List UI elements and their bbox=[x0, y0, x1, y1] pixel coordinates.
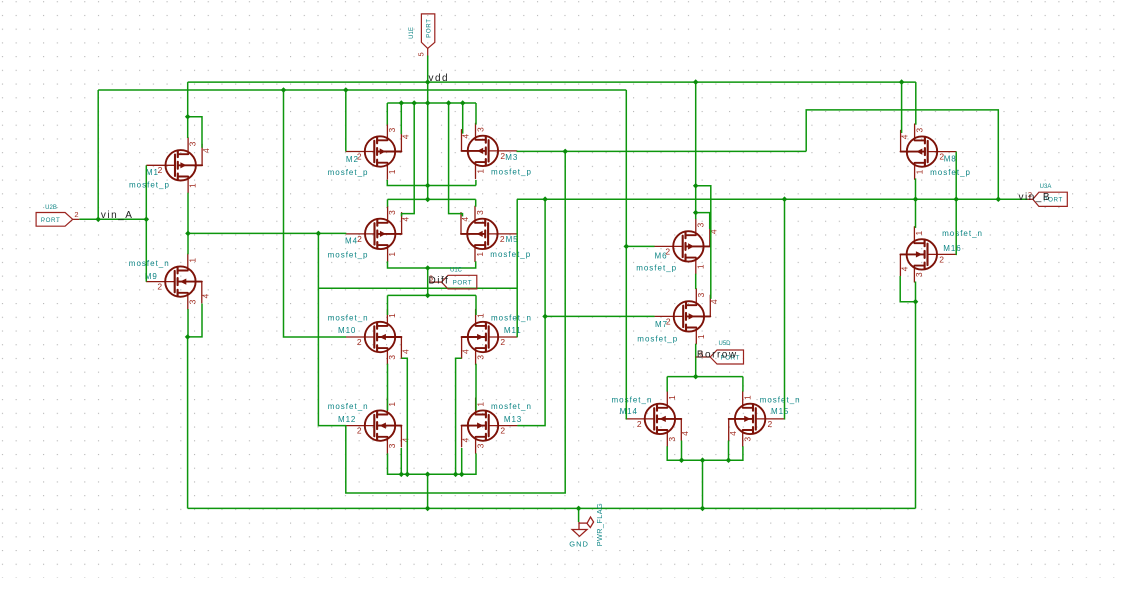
junction bbox=[576, 506, 582, 512]
junction bbox=[913, 196, 919, 202]
junction bbox=[453, 472, 459, 478]
svg-text:M4: M4 bbox=[345, 237, 358, 246]
wire left drop to gnd rail bbox=[187, 337, 189, 509]
svg-text:M12: M12 bbox=[338, 415, 356, 424]
junction bbox=[693, 374, 699, 380]
port vdd PORT (top) bbox=[427, 48, 429, 55]
svg-text:1: 1 bbox=[187, 258, 197, 263]
svg-text:3: 3 bbox=[387, 210, 397, 215]
wire to M5/M11 gates column bbox=[516, 199, 518, 337]
svg-text:1: 1 bbox=[743, 395, 753, 400]
wire to M3 pin4 bbox=[462, 103, 464, 134]
transistor M16 (mosfet_n) bbox=[900, 227, 955, 282]
svg-text:M15: M15 bbox=[771, 407, 789, 416]
wire M7 pin1 to Borrow bbox=[695, 344, 697, 377]
junction bbox=[693, 210, 699, 216]
svg-text:3: 3 bbox=[475, 355, 485, 360]
wire to M13 gate column bbox=[517, 199, 545, 425]
svg-text:4: 4 bbox=[461, 134, 471, 139]
wire M5 pin3 leg bbox=[475, 199, 477, 206]
svg-text:3: 3 bbox=[475, 443, 485, 448]
svg-text:PWR_FLAG: PWR_FLAG bbox=[595, 503, 604, 546]
wire vdd rail bbox=[188, 81, 916, 83]
svg-text:2: 2 bbox=[939, 254, 944, 264]
wire M9 pin3 leg bbox=[187, 309, 189, 337]
svg-text:3: 3 bbox=[914, 272, 924, 277]
wire M8 gate drop bbox=[955, 152, 957, 200]
wire to gnd rail bbox=[702, 460, 704, 508]
wire vdd distribution row bbox=[387, 102, 476, 104]
wire M11 pin4 down bbox=[456, 358, 462, 474]
svg-text:3: 3 bbox=[187, 299, 197, 304]
wire M3 gate jog to vin_B bbox=[806, 110, 998, 199]
wire mid row A bbox=[318, 287, 517, 289]
svg-text:2: 2 bbox=[357, 337, 362, 347]
junction bbox=[425, 506, 431, 512]
svg-text:4: 4 bbox=[461, 349, 471, 354]
wire to M3 pin3 bbox=[475, 103, 477, 125]
wire M13 pin4 leg bbox=[461, 448, 463, 474]
transistor M2 (mosfet_p) bbox=[346, 124, 401, 179]
svg-text:mosfet_n: mosfet_n bbox=[491, 402, 532, 411]
svg-text:3: 3 bbox=[696, 292, 706, 297]
junction bbox=[693, 183, 699, 189]
junction bbox=[562, 149, 568, 155]
port vin_B PORT bbox=[1028, 198, 1033, 200]
wire to M4 pin4 bbox=[402, 103, 415, 216]
junction bbox=[624, 244, 630, 250]
svg-text:mosfet_p: mosfet_p bbox=[637, 335, 678, 344]
wire to M12 gate bbox=[318, 233, 346, 425]
junction bbox=[425, 265, 431, 271]
junction bbox=[399, 100, 405, 106]
svg-text:mosfet_p: mosfet_p bbox=[930, 168, 971, 177]
transistor M4 (mosfet_p) bbox=[346, 206, 401, 261]
wire M15 pin4 leg bbox=[728, 441, 730, 461]
wire to M15 pin1 bbox=[742, 377, 744, 392]
svg-text:3: 3 bbox=[188, 141, 198, 146]
wire vin_B row bbox=[517, 198, 1028, 200]
transistor M3 (mosfet_p) bbox=[462, 123, 517, 178]
svg-text:Diff: Diff bbox=[429, 275, 450, 286]
wire to M6 pin4 bbox=[696, 213, 710, 229]
wire to M11 pin1 bbox=[475, 295, 477, 315]
wire vin_A port to gates bbox=[79, 218, 146, 220]
junction bbox=[446, 100, 452, 106]
svg-text:2: 2 bbox=[157, 282, 162, 292]
transistor M1 (mosfet_p) bbox=[147, 138, 202, 193]
svg-text:GND: GND bbox=[569, 539, 589, 548]
wire vdd to M1 pin3 bbox=[187, 82, 189, 138]
port vin_A PORT bbox=[73, 218, 80, 220]
svg-text:4: 4 bbox=[400, 349, 410, 354]
junction bbox=[185, 334, 191, 340]
svg-text:2: 2 bbox=[768, 419, 773, 429]
svg-text:vdd: vdd bbox=[429, 73, 450, 84]
svg-text:vin_A: vin_A bbox=[101, 210, 134, 221]
wire M12 pin4 leg bbox=[400, 448, 402, 474]
junction bbox=[679, 457, 685, 463]
wire to M5 pin4 bbox=[449, 103, 463, 216]
wire M10 pin3 to M12 pin1 bbox=[387, 364, 389, 411]
svg-text:M16: M16 bbox=[943, 244, 961, 253]
transistor M14 (mosfet_n) bbox=[626, 391, 681, 446]
svg-text:mosfet_n: mosfet_n bbox=[942, 229, 983, 238]
svg-text:4: 4 bbox=[728, 431, 738, 436]
svg-text:4: 4 bbox=[709, 299, 719, 304]
wire M4 pin3 leg bbox=[387, 199, 389, 206]
svg-text:4: 4 bbox=[400, 438, 410, 443]
svg-text:3: 3 bbox=[914, 128, 924, 133]
wire M10 pin4 down bbox=[402, 358, 408, 474]
junction bbox=[399, 472, 405, 478]
wire gnd stub bbox=[578, 508, 580, 522]
ground GND bbox=[572, 522, 587, 536]
wire Borrow row bbox=[667, 376, 743, 378]
junction bbox=[460, 100, 466, 106]
wire mid drop to gnd rail bbox=[427, 474, 429, 508]
wire vdd to M8 pin4 bbox=[901, 82, 903, 133]
junction bbox=[144, 217, 150, 223]
wire M4 pin3 / M5 pin3 tie bbox=[388, 198, 476, 200]
svg-text:3: 3 bbox=[387, 443, 397, 448]
wire vin_A rail bbox=[98, 89, 626, 91]
svg-text:2: 2 bbox=[74, 210, 78, 219]
svg-text:1: 1 bbox=[188, 183, 198, 188]
junction bbox=[693, 79, 699, 85]
svg-text:4: 4 bbox=[680, 431, 690, 436]
junction bbox=[95, 217, 101, 223]
junction bbox=[425, 197, 431, 203]
transistor M12 (mosfet_n) bbox=[346, 398, 401, 453]
wire node to M4 gate bbox=[188, 232, 346, 234]
svg-text:2: 2 bbox=[500, 337, 505, 347]
svg-text:vin_B: vin_B bbox=[1019, 192, 1052, 203]
junction bbox=[782, 196, 788, 202]
svg-text:5: 5 bbox=[417, 52, 426, 56]
svg-text:4: 4 bbox=[201, 294, 211, 299]
svg-text:1: 1 bbox=[475, 313, 485, 318]
svg-text:U1E: U1E bbox=[409, 27, 415, 39]
wire M2 pin1 / M3 pin1 tie bbox=[387, 180, 476, 186]
wire vin_A to M10 gate bbox=[284, 90, 347, 337]
svg-text:1: 1 bbox=[914, 169, 924, 174]
svg-text:mosfet_n: mosfet_n bbox=[328, 402, 369, 411]
svg-text:mosfet_p: mosfet_p bbox=[328, 168, 369, 177]
svg-text:4: 4 bbox=[461, 438, 471, 443]
svg-text:Borrow: Borrow bbox=[697, 350, 738, 361]
svg-text:1: 1 bbox=[475, 252, 485, 257]
wire vin_B to M16 gate bbox=[955, 199, 957, 254]
junction bbox=[411, 100, 417, 106]
wire vin_A to M2 gate bbox=[345, 90, 347, 151]
svg-text:4: 4 bbox=[401, 217, 411, 222]
svg-text:M8: M8 bbox=[944, 155, 957, 164]
transistor M6 (mosfet_p) bbox=[655, 219, 710, 274]
junction bbox=[185, 114, 191, 120]
wire to M1 pin4 bbox=[188, 117, 202, 148]
svg-text:3: 3 bbox=[387, 355, 397, 360]
wire M11 pin3 to M13 pin1 bbox=[475, 364, 477, 411]
wire M16 pin3 to gnd rail bbox=[915, 282, 917, 509]
svg-text:4: 4 bbox=[400, 134, 410, 139]
svg-text:mosfet_n: mosfet_n bbox=[491, 313, 532, 322]
svg-text:1: 1 bbox=[387, 313, 397, 318]
wire to M2 pin4 bbox=[400, 103, 402, 134]
transistor M11 (mosfet_n) bbox=[462, 309, 517, 364]
svg-text:1: 1 bbox=[914, 230, 924, 235]
junction bbox=[726, 457, 732, 463]
svg-text:1: 1 bbox=[695, 264, 705, 269]
power flag PWR_FLAG bbox=[579, 517, 594, 528]
svg-text:PORT: PORT bbox=[41, 217, 60, 224]
junction bbox=[425, 293, 431, 299]
svg-text:3: 3 bbox=[743, 437, 753, 442]
junction bbox=[459, 472, 465, 478]
svg-text:M14: M14 bbox=[620, 407, 638, 416]
junction bbox=[425, 472, 431, 478]
transistor M8 (mosfet_p) bbox=[901, 124, 956, 179]
svg-text:mosfet_p: mosfet_p bbox=[328, 251, 369, 260]
wire M14 pin4 leg bbox=[681, 441, 683, 461]
svg-text:mosfet_p: mosfet_p bbox=[129, 180, 170, 189]
svg-text:U3A: U3A bbox=[1040, 184, 1052, 190]
wire M3 pin1 leg bbox=[475, 180, 477, 186]
svg-text:PORT: PORT bbox=[453, 280, 472, 287]
wire M8 pin1 to M16 pin1 bbox=[915, 178, 917, 228]
svg-text:mosfet_n: mosfet_n bbox=[328, 313, 369, 322]
wire vdd rail drop to M8 pin3 bbox=[915, 82, 917, 125]
wire vin_A right drop to M14 gate bbox=[625, 90, 627, 419]
svg-text:mosfet_n: mosfet_n bbox=[612, 396, 653, 405]
junction bbox=[996, 196, 1002, 202]
junction bbox=[425, 100, 431, 106]
junction bbox=[316, 231, 322, 237]
svg-text:1: 1 bbox=[475, 402, 485, 407]
junction bbox=[405, 472, 411, 478]
wire vin_A left drop bbox=[97, 90, 99, 219]
svg-text:1: 1 bbox=[387, 402, 397, 407]
svg-text:M2: M2 bbox=[346, 155, 359, 164]
wire gnd rail bbox=[188, 507, 916, 509]
svg-text:M10: M10 bbox=[338, 326, 356, 335]
port Diff PORT bbox=[429, 281, 442, 283]
svg-text:1: 1 bbox=[387, 252, 397, 257]
wire M9 pin4 tie bbox=[188, 304, 202, 337]
svg-text:2: 2 bbox=[500, 426, 505, 436]
svg-text:2: 2 bbox=[500, 234, 505, 244]
wire to M6 gate bbox=[626, 245, 654, 247]
svg-text:mosfet_p: mosfet_p bbox=[491, 168, 532, 177]
junction bbox=[542, 196, 548, 202]
svg-text:1: 1 bbox=[387, 169, 397, 174]
wire vdd to M6 pin3 bbox=[695, 82, 697, 219]
svg-text:4: 4 bbox=[460, 217, 470, 222]
svg-text:M7: M7 bbox=[655, 320, 668, 329]
svg-text:3: 3 bbox=[695, 222, 705, 227]
transistor M9 (mosfet_n) bbox=[147, 254, 202, 309]
svg-text:4: 4 bbox=[900, 266, 910, 271]
svg-text:mosfet_n: mosfet_n bbox=[760, 396, 801, 405]
svg-text:U2B: U2B bbox=[45, 205, 57, 211]
svg-text:1: 1 bbox=[696, 334, 706, 339]
svg-text:4: 4 bbox=[900, 134, 910, 139]
transistor M5 (mosfet_p) bbox=[461, 206, 516, 261]
wire M14/M15 pin3 row bbox=[667, 446, 743, 460]
junction bbox=[913, 299, 919, 305]
junction bbox=[542, 314, 548, 320]
svg-text:PORT: PORT bbox=[426, 18, 433, 37]
transistor M15 (mosfet_n) bbox=[729, 391, 784, 446]
transistor M7 (mosfet_p) bbox=[655, 289, 710, 344]
svg-text:U5D: U5D bbox=[718, 341, 731, 347]
wire vin_B to M15 gate bbox=[783, 199, 785, 419]
junction bbox=[700, 506, 706, 512]
svg-text:mosfet_p: mosfet_p bbox=[490, 250, 531, 259]
wire to M7 gate bbox=[545, 315, 655, 317]
wire vdd column mid bbox=[427, 103, 429, 199]
wire to M14 pin1 bbox=[666, 377, 668, 392]
junction bbox=[425, 183, 431, 189]
svg-text:M1: M1 bbox=[146, 168, 159, 177]
svg-text:1: 1 bbox=[667, 395, 677, 400]
wire M6 pin1 to M7 pin3 bbox=[695, 274, 697, 289]
svg-text:M13: M13 bbox=[504, 415, 522, 424]
wire to M2 pin3 bbox=[386, 103, 388, 125]
wire M1 pin1 to M9 pin1 bbox=[187, 193, 189, 255]
wire to M7 pin4 bbox=[696, 186, 711, 299]
junction bbox=[185, 231, 191, 237]
svg-text:2: 2 bbox=[357, 426, 362, 436]
svg-text:3: 3 bbox=[475, 210, 485, 215]
wire M3 gate net bbox=[517, 150, 807, 152]
svg-text:3: 3 bbox=[475, 127, 485, 132]
wire M4/M5 pin1 tie (Diff) bbox=[388, 261, 476, 268]
wire M16 pin4 tie bbox=[900, 276, 915, 302]
svg-text:3: 3 bbox=[387, 128, 397, 133]
svg-text:1: 1 bbox=[475, 169, 485, 174]
svg-text:4: 4 bbox=[201, 148, 211, 153]
junction bbox=[899, 79, 905, 85]
wire M1 gate to M9 gate bbox=[145, 165, 147, 281]
svg-text:M6: M6 bbox=[655, 251, 668, 260]
svg-text:2: 2 bbox=[637, 419, 642, 429]
wire M12/M13 pin3 row bbox=[388, 453, 477, 474]
wire to M10 pin1 bbox=[387, 295, 389, 315]
junction bbox=[953, 196, 959, 202]
transistor M10 (mosfet_n) bbox=[346, 309, 401, 364]
wire vdd port drop bbox=[427, 56, 429, 104]
svg-text:M3: M3 bbox=[505, 153, 518, 162]
junction bbox=[343, 87, 349, 93]
svg-text:3: 3 bbox=[667, 437, 677, 442]
port Borrow PORT bbox=[696, 356, 711, 358]
svg-text:mosfet_n: mosfet_n bbox=[129, 259, 170, 268]
transistor M13 (mosfet_n) bbox=[462, 398, 517, 453]
svg-text:mosfet_p: mosfet_p bbox=[636, 264, 677, 273]
wire Diff port column bbox=[427, 268, 429, 295]
wire Diff to M10/M11 pin1 row bbox=[388, 294, 477, 296]
junction bbox=[281, 87, 287, 93]
junction bbox=[700, 457, 706, 463]
svg-text:U1C: U1C bbox=[450, 267, 463, 273]
wire M3 gate to M12 gate loop bbox=[346, 151, 565, 493]
junction bbox=[425, 79, 431, 85]
svg-text:M11: M11 bbox=[504, 326, 522, 335]
